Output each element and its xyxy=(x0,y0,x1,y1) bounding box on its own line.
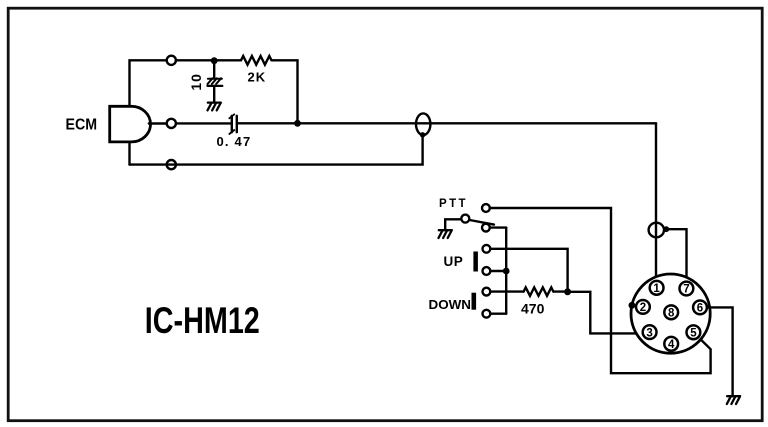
wire PTT pivot to ground xyxy=(445,219,461,229)
svg-text:10: 10 xyxy=(188,73,204,91)
svg-text:DOWN: DOWN xyxy=(429,297,472,312)
svg-text:3: 3 xyxy=(646,327,652,339)
wire top rail xyxy=(176,59,241,61)
switch PTT lever xyxy=(470,220,494,225)
switch PTT lower contact xyxy=(482,224,490,232)
terminal circle middle xyxy=(167,119,176,128)
resistor R1 2K xyxy=(241,56,272,65)
microphone ECM xyxy=(110,106,151,142)
wire UP bottom to bus xyxy=(490,270,506,272)
terminal circle bottom xyxy=(167,160,176,169)
svg-text:PTT: PTT xyxy=(439,198,468,210)
wire ECM top lead xyxy=(130,60,167,106)
pin 3 xyxy=(643,325,657,339)
switch DOWN bottom contact xyxy=(483,310,491,318)
cable shield marker E2 xyxy=(649,223,664,238)
wire middle rail to node B xyxy=(238,122,297,124)
wire ECM middle lead xyxy=(149,122,167,124)
wire ECM bottom lead xyxy=(128,142,130,165)
switch PTT top contact xyxy=(482,204,490,212)
switch DOWN actuator bar xyxy=(472,293,477,310)
capacitor C2 0.47 xyxy=(229,114,237,134)
connector J1 shell xyxy=(631,274,710,353)
switch DOWN top contact xyxy=(483,288,491,296)
svg-text:7: 7 xyxy=(683,284,689,296)
junction dot bus xyxy=(503,268,510,275)
label 10 value xyxy=(188,73,204,91)
pin 2 xyxy=(636,300,650,314)
junction dot shield E2 xyxy=(663,226,669,232)
svg-text:2K: 2K xyxy=(248,70,267,85)
wire DOWN bottom to bus xyxy=(490,313,506,315)
pin 1 xyxy=(650,281,664,295)
cable shield marker E1 xyxy=(416,113,430,135)
wire pin 6 to ground xyxy=(707,307,733,396)
pin 5 xyxy=(687,325,701,339)
wire right vertical to pin 1 xyxy=(655,123,657,281)
switch UP actuator bar xyxy=(473,252,478,272)
wire E2 to pin 7 xyxy=(666,229,686,282)
svg-text:6: 6 xyxy=(697,303,703,315)
svg-text:1: 1 xyxy=(653,283,660,295)
wire R1 to node B xyxy=(272,60,298,123)
junction dot shell xyxy=(629,302,636,309)
ground G3 xyxy=(727,396,740,404)
wire PTT lower to bus xyxy=(490,226,506,228)
wire middle rail right xyxy=(298,122,657,124)
wire UP top contact xyxy=(490,249,567,289)
pin 6 xyxy=(693,301,707,315)
junction dot node A xyxy=(211,57,218,64)
pin 8 xyxy=(664,305,678,319)
svg-text:4: 4 xyxy=(668,339,675,351)
terminal circle top xyxy=(167,56,176,65)
junction dot shield E1 xyxy=(420,132,425,137)
svg-text:5: 5 xyxy=(690,328,697,340)
wire DOWN top lead xyxy=(490,290,523,292)
ground G2 xyxy=(439,230,452,238)
switch PTT pivot contact xyxy=(461,215,469,223)
wire C1 to ground xyxy=(213,86,215,102)
wire middle rail left xyxy=(176,122,230,124)
wire junction to pin 3 xyxy=(568,292,643,334)
svg-text:2: 2 xyxy=(640,302,646,314)
wire bus vertical xyxy=(505,228,507,314)
svg-text:ECM: ECM xyxy=(66,117,98,134)
resistor R2 470 xyxy=(524,287,554,295)
capacitor C1 lead xyxy=(213,61,215,79)
svg-text:IC-HM12: IC-HM12 xyxy=(145,300,260,341)
wire bottom rail shield xyxy=(130,136,423,165)
svg-text:UP: UP xyxy=(444,254,464,269)
pin 4 xyxy=(664,337,678,351)
junction dot R2 node xyxy=(564,288,571,295)
ground G1 xyxy=(208,103,221,111)
junction dot node B xyxy=(294,120,301,127)
switch UP bottom contact xyxy=(483,267,491,275)
wire R2 to junction xyxy=(553,290,567,292)
wire PTT top to pin 5 xyxy=(490,208,711,373)
pin 7 xyxy=(680,282,694,296)
capacitor C1 10uF xyxy=(208,78,223,86)
svg-text:470: 470 xyxy=(521,301,545,317)
svg-text:8: 8 xyxy=(668,308,675,320)
switch UP top contact xyxy=(483,245,491,253)
svg-text:0. 47: 0. 47 xyxy=(217,134,252,149)
